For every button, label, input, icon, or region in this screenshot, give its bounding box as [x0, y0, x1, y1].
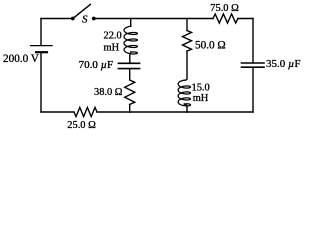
wire branch2 inductor to bottom — [184, 104, 187, 112]
svg-text:70.0 µF: 70.0 µF — [79, 59, 113, 71]
svg-text:15.0: 15.0 — [192, 82, 210, 93]
svg-text:mH: mH — [104, 42, 120, 53]
resistor R25 25.0 ohm — [74, 107, 97, 116]
inductor L22 22.0 mH coil — [124, 26, 137, 54]
svg-text:22.0: 22.0 — [104, 30, 122, 41]
resistor R75 75.0 ohm — [213, 14, 238, 23]
wire branch2 resistor to inductor — [184, 51, 187, 80]
wire left vertical upper (top wire to battery) — [40, 19, 42, 46]
wire branch1 coil to capacitor — [129, 52, 132, 63]
wire top-left horizontal (battery top to switch) — [41, 18, 71, 20]
capacitor C70 70.0 uF plates — [118, 63, 139, 68]
wire left vertical lower (battery to bottom) — [40, 53, 42, 112]
wire branch2 top stub — [186, 19, 188, 31]
inductor L15 15.0 mH coil — [178, 80, 190, 106]
switch dot left — [71, 17, 75, 21]
wire bottom left — [41, 111, 74, 113]
wire branch1 resistor to bottom — [129, 105, 131, 113]
wire bottom right (corner to branch2) — [187, 111, 253, 113]
svg-text:35.0 µF: 35.0 µF — [266, 58, 300, 70]
battery 200.0 V long plate — [31, 45, 53, 47]
wire bottom middle (branch2 to branch1) — [130, 111, 187, 113]
svg-text:75.0 Ω: 75.0 Ω — [210, 3, 239, 14]
resistor R38 38.0 ohm — [125, 80, 135, 105]
svg-text:38.0 Ω: 38.0 Ω — [94, 87, 123, 98]
svg-text:S: S — [82, 14, 88, 26]
svg-text:50.0 Ω: 50.0 Ω — [195, 39, 226, 51]
wire right vertical lower — [252, 68, 254, 112]
capacitor C35 35.0 uF plates — [242, 63, 265, 67]
switch blade — [74, 4, 90, 17]
wire top-right (resistor to corner) — [238, 18, 253, 20]
svg-text:25.0 Ω: 25.0 Ω — [67, 120, 96, 131]
wire right vertical upper — [252, 19, 254, 63]
wire branch1 capacitor to resistor — [129, 69, 131, 80]
svg-text:200.0 V: 200.0 V — [3, 53, 39, 65]
resistor R50 50.0 ohm — [183, 31, 192, 52]
wire branch1 top stub — [130, 19, 132, 27]
wire bottom (branch1 to 25 ohm) — [97, 111, 130, 113]
svg-text:mH: mH — [193, 93, 209, 104]
switch dot right — [92, 17, 96, 21]
battery 200.0 V short plate — [36, 51, 47, 53]
wire top middle (switch to 75 ohm resistor) — [96, 18, 214, 20]
